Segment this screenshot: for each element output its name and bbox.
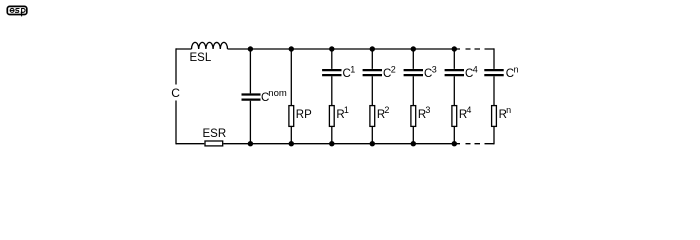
junction node 4 bottom bbox=[370, 141, 375, 146]
wire bottom rail bbox=[176, 143, 454, 145]
junction node 2 bottom bbox=[289, 141, 294, 146]
wire left leg lower (terminal C) bbox=[175, 101, 177, 145]
svg-text:2: 2 bbox=[391, 65, 396, 75]
svg-text:3: 3 bbox=[425, 105, 430, 115]
capacitor C2 bbox=[363, 70, 382, 75]
wire Cn/Rn branch middle bbox=[493, 76, 495, 105]
junction node 6 top bbox=[452, 46, 457, 51]
resistor ESR bbox=[205, 141, 223, 146]
junction node 3 bottom bbox=[329, 141, 334, 146]
wire Cn branch upper bbox=[493, 48, 495, 69]
svg-text:4: 4 bbox=[473, 65, 478, 75]
resistor Rn bbox=[492, 106, 497, 127]
wire Cn branch lower bbox=[493, 127, 495, 144]
ESP logo letter p bbox=[21, 9, 25, 17]
junction node 4 top bbox=[370, 46, 375, 51]
wire top rail dashed segment to Cn branch bbox=[454, 48, 494, 50]
capacitor C1 bbox=[322, 70, 341, 75]
svg-text:ESR: ESR bbox=[203, 128, 227, 140]
capacitor C4 bbox=[445, 70, 464, 75]
wire bottom rail dashed segment to Cn branch bbox=[454, 143, 494, 145]
svg-text:1: 1 bbox=[350, 65, 355, 75]
svg-text:nom: nom bbox=[268, 88, 287, 99]
wire top rail bbox=[176, 48, 454, 50]
junction node 1 bottom bbox=[248, 141, 253, 146]
svg-text:ESL: ESL bbox=[190, 52, 212, 64]
junction node 5 bottom bbox=[411, 141, 416, 146]
svg-text:1: 1 bbox=[344, 105, 349, 115]
junction node 5 top bbox=[411, 46, 416, 51]
capacitor C3 bbox=[404, 70, 423, 75]
resistor RP bbox=[289, 106, 294, 127]
capacitor Cn bbox=[484, 70, 503, 75]
resistor R4 bbox=[452, 106, 457, 127]
ESP logo border bbox=[7, 6, 27, 14]
wire left leg upper (terminal C) bbox=[175, 48, 177, 84]
ESP logo letter e bbox=[10, 8, 14, 12]
wire C1/R1 branch bbox=[331, 49, 333, 144]
svg-text:RP: RP bbox=[296, 109, 312, 121]
svg-text:C: C bbox=[171, 86, 180, 100]
svg-text:2: 2 bbox=[384, 105, 389, 115]
svg-text:n: n bbox=[514, 65, 519, 75]
resistor R2 bbox=[370, 106, 375, 127]
junction node 1 top bbox=[248, 46, 253, 51]
svg-text:4: 4 bbox=[466, 105, 471, 115]
junction node 2 top bbox=[289, 46, 294, 51]
svg-text:n: n bbox=[506, 105, 511, 115]
svg-text:3: 3 bbox=[432, 65, 437, 75]
wire C3/R3 branch bbox=[412, 49, 414, 144]
wire C2/R2 branch bbox=[371, 49, 373, 144]
junction node 3 top bbox=[329, 46, 334, 51]
capacitor Cnom bbox=[242, 95, 261, 100]
resistor R3 bbox=[411, 106, 416, 127]
junction node 6 bottom bbox=[452, 141, 457, 146]
wire C4/R4 branch bbox=[453, 49, 455, 144]
wire RP branch bbox=[290, 49, 292, 144]
resistor R1 bbox=[329, 106, 334, 127]
wire Cnom branch bbox=[249, 49, 251, 144]
inductor ESL bbox=[192, 42, 228, 49]
ESP logo letter s bbox=[15, 9, 20, 13]
